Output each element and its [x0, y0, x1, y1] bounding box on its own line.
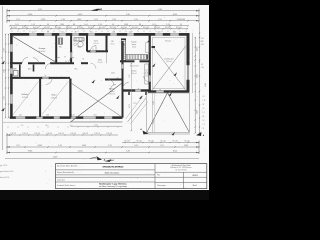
svg-text:18 Stg 17,5/29: 18 Stg 17,5/29	[130, 64, 139, 67]
svg-text:Essen: Essen	[110, 91, 115, 93]
svg-text:8,8 1,01: 8,8 1,01	[33, 27, 39, 29]
svg-text:3,5: 3,5	[203, 108, 205, 110]
svg-text:Index b 22.05.: Index b 22.05.	[0, 177, 10, 179]
svg-text:Diele: Diele	[111, 73, 115, 75]
svg-text:2,365: 2,365	[38, 145, 42, 147]
svg-text:1,01 8,8: 1,01 8,8	[94, 133, 100, 135]
svg-text:1,01: 1,01	[82, 59, 85, 61]
svg-text:E: E	[1, 58, 2, 60]
svg-text:1,01: 1,01	[70, 125, 73, 127]
svg-text:Garage: Garage	[39, 48, 47, 50]
svg-text:1,01 8,8: 1,01 8,8	[46, 133, 52, 135]
svg-text:31,62 m2: 31,62 m2	[39, 51, 46, 53]
svg-text:7,74: 7,74	[4, 96, 6, 99]
svg-text:3,49: 3,49	[126, 14, 130, 16]
svg-text:A: A	[203, 134, 205, 137]
svg-text:Flur: Flur	[75, 69, 78, 71]
svg-text:5,0 m2: 5,0 m2	[132, 46, 136, 48]
svg-text:16,5 m2: 16,5 m2	[166, 61, 171, 63]
svg-text:1,01: 1,01	[21, 125, 24, 127]
svg-text:Essen: Essen	[132, 71, 137, 73]
svg-text:Bonifatiusplatz 7, gegr. Wohnh: Bonifatiusplatz 7, gegr. Wohnhaus	[99, 183, 127, 186]
svg-text:Kind: Kind	[94, 41, 97, 43]
svg-text:1,01: 1,01	[84, 24, 87, 26]
svg-text:gez. 12.05.: gez. 12.05.	[0, 165, 8, 167]
svg-text:11,9 m2: 11,9 m2	[98, 62, 103, 64]
svg-text:1,01: 1,01	[129, 32, 132, 34]
svg-text:Kind 2: Kind 2	[51, 95, 56, 97]
svg-text:2,365: 2,365	[41, 19, 45, 21]
svg-text:2,365: 2,365	[184, 145, 188, 147]
svg-text:1,01 8,8: 1,01 8,8	[58, 133, 64, 135]
svg-text:Kochen: Kochen	[131, 42, 136, 44]
svg-text:1,01 8,8: 1,01 8,8	[34, 133, 40, 135]
svg-text:1,01: 1,01	[116, 77, 119, 79]
svg-text:A: A	[104, 159, 106, 162]
svg-text:2,01: 2,01	[201, 44, 204, 46]
svg-text:1,99: 1,99	[112, 19, 115, 21]
svg-text:2,365: 2,365	[196, 47, 198, 51]
svg-text:1,01: 1,01	[152, 24, 155, 26]
svg-text:1,15: 1,15	[203, 100, 206, 102]
svg-text:14,6 m2: 14,6 m2	[131, 73, 136, 75]
svg-text:2,0: 2,0	[203, 120, 205, 122]
svg-text:21,49: 21,49	[53, 157, 58, 159]
svg-text:76: 76	[92, 49, 94, 51]
svg-text:13,92 m2: 13,92 m2	[51, 97, 57, 99]
svg-text:WC: WC	[59, 47, 63, 49]
svg-text:2,51: 2,51	[16, 145, 19, 147]
svg-text:Plan:: Plan:	[157, 175, 161, 177]
svg-text:1,01 8,8: 1,01 8,8	[82, 133, 88, 135]
svg-text:99 1,24: 99 1,24	[148, 141, 153, 143]
svg-text:8,8 1,01: 8,8 1,01	[154, 27, 160, 29]
svg-text:8,8 1,01: 8,8 1,01	[11, 27, 17, 29]
svg-text:8,8 1,01: 8,8 1,01	[165, 27, 171, 29]
svg-text:A: A	[140, 128, 142, 131]
svg-text:2,99: 2,99	[4, 69, 6, 72]
svg-text:29,9 m2: 29,9 m2	[109, 93, 115, 95]
svg-text:1,76: 1,76	[137, 88, 140, 90]
svg-text:Abst.: Abst.	[28, 68, 32, 71]
svg-text:1,01: 1,01	[201, 38, 204, 40]
svg-text:2,01: 2,01	[94, 114, 97, 116]
svg-text:8,8 1,01: 8,8 1,01	[176, 27, 182, 29]
svg-text:8,8 1,01: 8,8 1,01	[66, 27, 72, 29]
svg-text:3,24: 3,24	[134, 19, 137, 21]
svg-text:8,8 1,01: 8,8 1,01	[44, 27, 50, 29]
svg-text:99 1,24: 99 1,24	[184, 141, 189, 143]
svg-text:6,115: 6,115	[173, 151, 177, 153]
svg-text:8,8 1,01: 8,8 1,01	[77, 27, 83, 29]
svg-text:1,365: 1,365	[60, 24, 64, 26]
svg-text:8,8 1,01: 8,8 1,01	[110, 27, 116, 29]
svg-text:Bad: Bad	[78, 47, 81, 49]
svg-text:1,49: 1,49	[61, 19, 64, 21]
svg-text:4,115: 4,115	[196, 110, 198, 114]
svg-text:8,8 1,01: 8,8 1,01	[88, 27, 94, 29]
svg-text:Zeichnungsnr.:: Zeichnungsnr.:	[157, 185, 167, 187]
svg-text:1,51: 1,51	[173, 32, 176, 34]
svg-text:Dachterrasse: Dachterrasse	[164, 58, 173, 61]
svg-text:48203: 48203	[192, 175, 198, 177]
svg-text:99 1,24: 99 1,24	[172, 141, 177, 143]
svg-text:88: 88	[203, 116, 205, 118]
svg-text:99 1,24: 99 1,24	[160, 141, 165, 143]
svg-text:8,8 1,01: 8,8 1,01	[143, 27, 149, 29]
svg-text:1,01: 1,01	[32, 32, 35, 34]
svg-text:1,01 8,8: 1,01 8,8	[106, 133, 112, 135]
svg-text:1,26: 1,26	[112, 32, 115, 34]
svg-text:1,24: 1,24	[31, 24, 34, 26]
svg-text:1,51: 1,51	[19, 114, 22, 116]
svg-text:1,01: 1,01	[61, 32, 64, 34]
svg-text:1,38: 1,38	[46, 114, 49, 116]
svg-text:2,51: 2,51	[160, 145, 163, 147]
svg-text:gepr. Bauherr 14.05.: gepr. Bauherr 14.05.	[0, 170, 14, 173]
svg-text:88: 88	[73, 24, 75, 26]
svg-text:6,115: 6,115	[173, 14, 177, 16]
svg-text:3,49: 3,49	[126, 151, 130, 153]
svg-text:3,24: 3,24	[134, 145, 137, 147]
svg-text:15,12 m2: 15,12 m2	[22, 97, 28, 99]
svg-text:Maße Grundrisse: Maße Grundrisse	[105, 172, 120, 175]
svg-text:9,365: 9,365	[28, 14, 33, 16]
svg-text:1,01: 1,01	[159, 89, 162, 91]
svg-text:1,24: 1,24	[201, 67, 204, 69]
svg-text:99: 99	[203, 104, 205, 106]
svg-text:5,365: 5,365	[158, 9, 162, 11]
svg-text:99 1,24: 99 1,24	[136, 141, 141, 143]
svg-text:Terrasse: Terrasse	[165, 41, 171, 43]
svg-text:88,5: 88,5	[46, 125, 49, 127]
svg-text:6,365: 6,365	[205, 83, 207, 87]
svg-text:ERGÄNZTE ANTRAG: ERGÄNZTE ANTRAG	[103, 165, 124, 168]
svg-text:4,135: 4,135	[78, 151, 83, 153]
svg-text:3,115: 3,115	[196, 74, 198, 78]
svg-text:88: 88	[75, 32, 77, 34]
svg-text:2,4: 2,4	[203, 96, 205, 98]
svg-text:Speise: Speise	[132, 44, 137, 46]
svg-text:1,135: 1,135	[153, 101, 155, 105]
svg-text:2,365: 2,365	[177, 19, 181, 21]
svg-text:1,26: 1,26	[72, 114, 75, 116]
svg-text:99: 99	[47, 24, 49, 26]
svg-text:12,2 m2: 12,2 m2	[93, 43, 98, 45]
svg-text:4,115: 4,115	[129, 104, 131, 108]
svg-text:99 1,24: 99 1,24	[124, 141, 129, 143]
svg-text:1,01 8,8: 1,01 8,8	[10, 133, 16, 135]
svg-text:99: 99	[201, 64, 203, 66]
svg-text:1,01: 1,01	[15, 24, 18, 26]
svg-text:1,49: 1,49	[58, 145, 61, 147]
svg-text:2,365: 2,365	[181, 19, 185, 21]
svg-text:8,8 1,01: 8,8 1,01	[121, 27, 127, 29]
svg-text:8,8 1,01: 8,8 1,01	[99, 27, 105, 29]
svg-text:WC: WC	[111, 41, 114, 43]
svg-text:88: 88	[139, 24, 141, 26]
svg-text:3,135: 3,135	[38, 9, 42, 11]
svg-text:99: 99	[112, 24, 114, 26]
svg-text:1,01 8,8: 1,01 8,8	[70, 133, 76, 135]
svg-text:2,01: 2,01	[94, 19, 97, 21]
svg-text:4,0 m2: 4,0 m2	[110, 43, 114, 45]
svg-text:1,01 8,8: 1,01 8,8	[22, 133, 28, 135]
svg-text:Diele: Diele	[98, 60, 102, 62]
svg-text:1,01: 1,01	[90, 32, 93, 34]
svg-text:1,365: 1,365	[124, 24, 128, 26]
svg-text:88,5: 88,5	[201, 41, 204, 43]
svg-text:5,99: 5,99	[4, 48, 6, 51]
svg-text:99: 99	[180, 24, 182, 26]
svg-text:2,365: 2,365	[153, 120, 155, 124]
svg-text:2,51: 2,51	[158, 19, 161, 21]
svg-text:2,365: 2,365	[82, 145, 86, 147]
svg-text:1,24: 1,24	[166, 24, 169, 26]
svg-text:4,135: 4,135	[78, 14, 83, 16]
svg-text:2,01: 2,01	[158, 32, 161, 34]
svg-text:1,99: 1,99	[108, 145, 111, 147]
svg-text:2,51: 2,51	[16, 19, 19, 21]
svg-text:88: 88	[47, 32, 49, 34]
svg-text:1,2: 1,2	[203, 112, 205, 114]
svg-text:1,365: 1,365	[77, 19, 81, 21]
svg-text:9,365: 9,365	[28, 151, 33, 153]
svg-text:8,8 1,01: 8,8 1,01	[22, 27, 28, 29]
svg-text:8,8 1,01: 8,8 1,01	[55, 27, 61, 29]
svg-text:1,24: 1,24	[98, 24, 101, 26]
svg-text:Wohnen: Wohnen	[109, 89, 115, 91]
svg-text:HWR: HWR	[13, 69, 17, 71]
svg-text:8,8 1,01: 8,8 1,01	[132, 27, 138, 29]
svg-text:1,4: 1,4	[203, 124, 205, 126]
svg-text:99: 99	[203, 128, 205, 130]
svg-text:17,5: 17,5	[133, 103, 136, 105]
svg-text:2,99: 2,99	[129, 74, 131, 77]
svg-text:Tel. 0511 / 97 38 30: Tel. 0511 / 97 38 30	[175, 170, 187, 172]
